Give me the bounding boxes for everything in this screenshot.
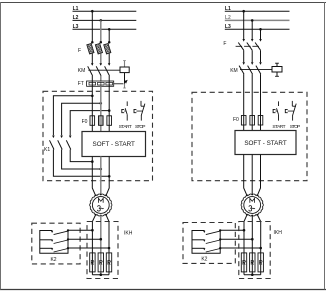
shorting contactor K2 body (left) xyxy=(40,230,68,253)
wire K2 pole1 to line1 (left) xyxy=(67,229,93,231)
contactor KM coil lead down (left) xyxy=(124,73,126,84)
fuse F label (left) xyxy=(78,48,81,54)
contactor KM contact pole 2 (right) xyxy=(248,62,254,74)
wire phase3 drop to breaker (right) xyxy=(260,29,262,39)
control fuse F0 pole 1 (left) xyxy=(90,116,95,126)
svg-text:SOFT - START: SOFT - START xyxy=(244,140,286,147)
bypass contactor K1 label xyxy=(44,147,50,153)
svg-text:START: START xyxy=(272,124,285,130)
wire L1 bus (left) xyxy=(73,10,137,12)
node L1 (left) xyxy=(73,6,79,12)
svg-text:START: START xyxy=(119,124,132,130)
contactor KM coil (right) xyxy=(272,67,282,73)
START pushbutton (right) xyxy=(273,101,278,120)
START label (left) xyxy=(119,124,132,130)
wire phase1 drop to breaker (right) xyxy=(243,11,245,39)
svg-text:FT: FT xyxy=(78,81,84,87)
svg-text:STOP: STOP xyxy=(135,124,146,130)
contactor KM linkage (left) xyxy=(88,69,120,71)
wire phase2 drop to fuse (left, grey) xyxy=(100,20,102,42)
resistor bank IKH dashed enclosure (left) xyxy=(87,222,118,279)
bypass contactor K1 pole 1 xyxy=(50,136,55,150)
motor M2 (right) xyxy=(241,194,263,216)
contactor KM coil stub bottom (right) xyxy=(275,72,279,76)
svg-text:SOFT - START: SOFT - START xyxy=(93,141,135,148)
node L3 (left) xyxy=(73,24,79,30)
wire K1 pole3 return to phase1 (left) xyxy=(70,150,92,162)
contactor KM coil stub top (left) xyxy=(123,61,126,67)
wire L1 bus (right) xyxy=(225,10,290,12)
contactor KM coil stub top (right) xyxy=(275,63,279,66)
junction dot K2 wire2/line2 (right) xyxy=(251,238,254,241)
breaker F pole 2 (right) xyxy=(244,39,253,62)
motor M1 (left) xyxy=(90,194,112,216)
resistor R2 (left) xyxy=(98,253,103,272)
shorting contactor K2 dashed enclosure (right) xyxy=(183,223,235,264)
fuse F pole 1 (left) xyxy=(87,41,94,65)
junction dot K2 wire1/line1 (right) xyxy=(243,229,246,232)
wire motor to resistor bank line 3 (right) xyxy=(257,215,260,275)
control fuses F0 label (left) xyxy=(82,119,88,125)
wire phase1 through F0 to soft starter (left) xyxy=(91,86,93,131)
wire motor to resistor bank line 1 (right) xyxy=(244,215,247,275)
wire phase3 starter to motor (right) xyxy=(257,155,260,196)
K2 label (right) xyxy=(201,256,207,262)
wire phase1 KM to FT (left) xyxy=(91,76,93,81)
junction dot K2 wire3/line3 (left) xyxy=(108,247,111,250)
junction dot phase1 bypass tap (left) xyxy=(91,95,94,98)
motor terminal dots top (left) xyxy=(95,194,107,197)
wire motor to resistor bank line 2 (right) xyxy=(251,216,253,275)
junction dot return/phase2 (left) xyxy=(100,168,103,171)
junction dot L1/phase1 (right) xyxy=(242,10,245,13)
wire motor to resistor bank line 1 (left) xyxy=(92,215,95,275)
svg-text:K2: K2 xyxy=(201,256,207,262)
wire phase2 KM to starter (right) xyxy=(251,74,253,130)
junction dot K2 wire3/line3 (right) xyxy=(259,247,262,250)
contactor KM coil stub bottom (left) xyxy=(123,84,126,88)
wire phase3 KM to FT (left) xyxy=(108,76,110,81)
svg-text:STOP: STOP xyxy=(290,124,301,130)
node L2 (left) xyxy=(73,15,79,21)
contactor KM label (left) xyxy=(78,68,86,74)
wire L3 bus (left) xyxy=(73,28,137,30)
wire phase3 through F0 to soft starter (left) xyxy=(108,86,110,131)
wire motor to resistor bank line 2 (left, grey) xyxy=(100,216,102,275)
wire phase3 KM to starter (right) xyxy=(260,74,262,130)
svg-text:KM: KM xyxy=(78,68,86,74)
contactor KM contact pole 2 (left) xyxy=(96,63,102,76)
svg-text:KM: KM xyxy=(230,68,238,74)
wire phase2 drop to breaker (right) xyxy=(251,20,253,39)
wire phase2 starter to motor (left, grey) xyxy=(100,157,102,195)
junction dot K2 wire1/line1 (left) xyxy=(91,229,94,232)
control fuse F0 pole 3 (left) xyxy=(107,116,112,126)
contactor KM contact pole 1 (left) xyxy=(88,63,94,76)
contactor KM linkage (right) xyxy=(240,69,272,71)
wire phase1 drop to fuse (left) xyxy=(91,11,93,42)
wire phase2 through F0 to soft starter (left, grey) xyxy=(100,86,102,131)
node L1 (right) xyxy=(225,6,231,12)
shorting contactor K2 body (right) xyxy=(192,230,220,253)
svg-text:IKH: IKH xyxy=(124,231,133,237)
soft starter unit U1 (left) xyxy=(82,132,146,157)
wire K1 pole1 return to phase3 (left) xyxy=(53,150,109,177)
soft starter dashed enclosure (right) xyxy=(192,92,307,180)
control fuse F0 pole 1 (right) xyxy=(241,116,246,126)
wire L2 bus (left) xyxy=(73,19,137,21)
junction dot L2/phase2 (right) xyxy=(251,19,254,22)
wire phase1 starter to motor (left) xyxy=(92,157,95,196)
wire phase2 KM to FT (left, grey) xyxy=(100,76,102,81)
wire K2 pole3 to line3 (right) xyxy=(219,247,261,249)
control fuse F0 pole 3 (right) xyxy=(258,116,263,126)
breaker F label (right) xyxy=(223,41,226,47)
contactor KM label (right) xyxy=(230,68,238,74)
junction dot L2/phase2 (left) xyxy=(100,19,103,22)
fuse F pole 2 (left) xyxy=(95,41,102,65)
breaker F pole 3 (right) xyxy=(252,39,261,62)
breaker F pole 1 (right) xyxy=(236,39,245,62)
soft starter dashed enclosure (left) xyxy=(43,91,153,180)
junction dot L1/phase1 (left) xyxy=(91,10,94,13)
START label (right) xyxy=(272,124,285,130)
wire K2 pole3 to line3 (left) xyxy=(67,247,109,249)
thermal overload FT body (left) xyxy=(87,81,114,86)
contactor KM contact pole 3 (left) xyxy=(105,63,111,76)
contactor KM coil (left) xyxy=(120,67,129,73)
star point bus (right) xyxy=(244,273,261,276)
K2 label (left) xyxy=(50,257,56,263)
junction dot L3/phase3 (right) xyxy=(259,28,262,31)
control fuse F0 pole 2 (left) xyxy=(99,116,104,126)
wire bypass tap 2 to K1 (left) xyxy=(62,103,101,135)
motor terminal dots bottom (right) xyxy=(246,214,258,217)
STOP pushbutton (right) xyxy=(285,101,296,121)
motor terminal dots bottom (left) xyxy=(95,214,107,217)
resistor R2 (right) xyxy=(250,253,255,272)
wire phase2 starter to motor (right) xyxy=(251,155,253,195)
soft starter unit U2 (right) xyxy=(235,131,296,155)
STOP label (left) xyxy=(135,124,146,130)
svg-text:K1: K1 xyxy=(44,147,50,153)
wire bypass tap 1 to K1 (left) xyxy=(53,96,92,136)
wire L2 bus (right, grey) xyxy=(225,19,290,21)
control fuse F0 pole 2 (right) xyxy=(250,116,255,126)
wire K2 pole2 to line2 (right) xyxy=(219,238,252,240)
node L3 (right) xyxy=(225,24,231,30)
thermal overload FT label (left) xyxy=(78,81,84,87)
wire K2 pole1 to line1 (right) xyxy=(219,229,244,231)
control fuses F0 label (right) xyxy=(233,117,239,123)
bypass contactor K1 pole 2 xyxy=(58,136,63,150)
wire K2 pole2 to line2 (left) xyxy=(67,238,101,240)
STOP label (right) xyxy=(290,124,301,130)
junction dot phase2 bypass tap (left) xyxy=(100,102,103,105)
svg-text:F: F xyxy=(78,48,81,54)
wire phase1 KM to starter (right) xyxy=(243,74,245,130)
junction dot K2 wire2/line2 (left) xyxy=(100,238,103,241)
svg-text:F: F xyxy=(223,41,226,47)
STOP pushbutton (left) xyxy=(134,101,145,121)
IKH label (left) xyxy=(124,231,133,237)
wire K1 pole2 return to phase2 (left) xyxy=(62,150,101,170)
resistor R1 (right) xyxy=(241,253,246,272)
wire phase1 starter to motor (right) xyxy=(244,155,247,196)
FT trip linkage with arrow (left) xyxy=(114,80,128,84)
motor terminal dots top (right) xyxy=(246,194,258,197)
resistor R1 (left) xyxy=(90,253,95,272)
wire L3 bus (right) xyxy=(225,28,290,30)
junction dot return/phase3 (left) xyxy=(108,175,111,178)
wire phase3 drop to fuse (left) xyxy=(108,29,110,42)
shorting contactor K2 dashed enclosure (left) xyxy=(32,223,80,264)
star point bus (left) xyxy=(92,273,109,276)
contactor KM contact pole 1 (right) xyxy=(239,62,245,74)
wire phase3 starter to motor (left) xyxy=(106,157,109,196)
junction dot return/phase1 (left) xyxy=(91,160,94,163)
junction dot L3/phase3 (left) xyxy=(108,28,111,31)
wire motor to resistor bank line 3 (left) xyxy=(106,215,109,275)
svg-text:F0: F0 xyxy=(82,119,88,125)
svg-text:IKH: IKH xyxy=(274,230,283,236)
fuse F pole 3 (left) xyxy=(104,41,111,65)
junction dot phase3 bypass tap (left) xyxy=(108,109,111,112)
svg-text:F0: F0 xyxy=(233,117,239,123)
resistor R3 (left) xyxy=(106,253,111,272)
resistor R3 (right) xyxy=(258,253,263,272)
contactor KM contact pole 3 (right) xyxy=(256,62,262,74)
wire bypass tap 3 to K1 (left) xyxy=(70,111,109,136)
bypass contactor K1 pole 3 xyxy=(66,136,71,150)
svg-text:K2: K2 xyxy=(50,257,56,263)
IKH label (right) xyxy=(274,230,283,236)
resistor bank IKH dashed enclosure (right) xyxy=(239,222,270,279)
node L2 (right, grey) xyxy=(225,15,231,21)
START pushbutton (left) xyxy=(122,101,127,120)
